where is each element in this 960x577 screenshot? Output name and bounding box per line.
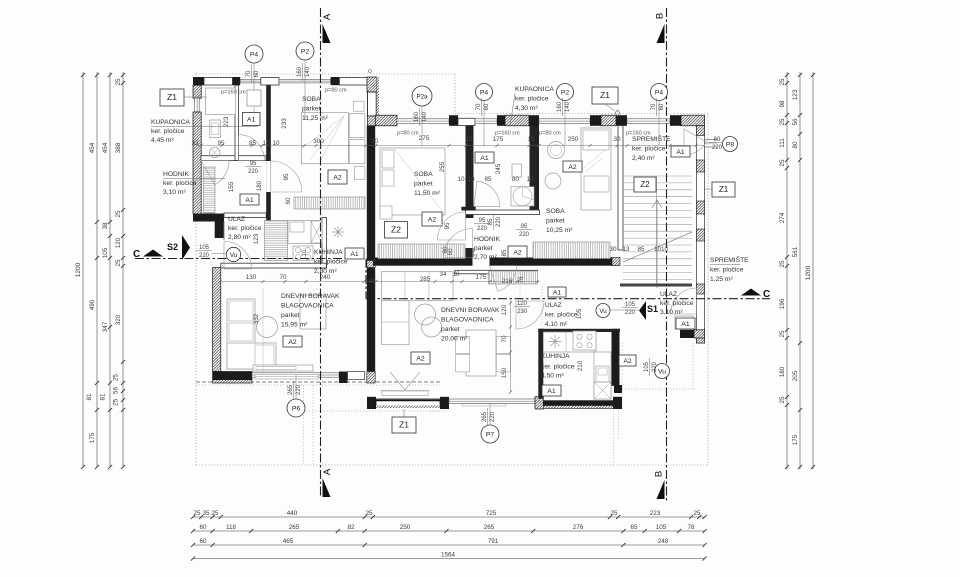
party wall hatch strip east <box>377 77 379 116</box>
svg-text:parket: parket <box>302 106 321 113</box>
svg-text:175: 175 <box>476 274 487 281</box>
svg-text:HODNIK: HODNIK <box>474 236 501 243</box>
window S1 big (P6) <box>252 373 339 377</box>
svg-text:p=160 cm: p=160 cm <box>221 90 246 96</box>
P7 circle <box>481 425 499 443</box>
svg-text:95: 95 <box>479 218 486 224</box>
P6 circle <box>287 399 305 417</box>
svg-text:240: 240 <box>320 274 331 281</box>
wall pier <box>529 115 539 126</box>
tag A2 kupaonica mid <box>563 161 582 172</box>
svg-text:105: 105 <box>199 245 210 251</box>
tag A2 living left <box>283 336 302 347</box>
svg-text:A: A <box>322 13 333 20</box>
svg-text:725: 725 <box>486 510 497 517</box>
window S right (P7) <box>449 399 535 403</box>
svg-text:160: 160 <box>557 101 563 112</box>
P4 circle mid <box>476 84 493 101</box>
svg-text:230: 230 <box>517 309 528 315</box>
svg-text:ker. pločice: ker. pločice <box>163 180 197 187</box>
door arc ulaz mid big <box>516 301 544 329</box>
terrace dashed edge left unit <box>196 381 440 383</box>
wall: east right unit base <box>696 126 704 344</box>
wall: mid horizontal east part <box>490 258 621 266</box>
Vu circle right-lower <box>655 364 670 379</box>
svg-text:220: 220 <box>712 145 723 151</box>
svg-text:A1: A1 <box>350 251 359 258</box>
wall: left unit north corner pier <box>193 77 204 85</box>
section line C right <box>366 298 770 300</box>
svg-text:ker. pločice: ker. pločice <box>515 96 549 103</box>
svg-text:85: 85 <box>488 218 494 225</box>
svg-text:223: 223 <box>223 116 230 127</box>
svg-text:parket: parket <box>441 326 460 333</box>
svg-text:25: 25 <box>779 260 786 268</box>
svg-text:265: 265 <box>482 411 488 422</box>
Vu circle left <box>226 247 240 261</box>
svg-text:220: 220 <box>296 384 302 395</box>
svg-text:S2: S2 <box>167 242 178 252</box>
svg-text:ker. pločice: ker. pločice <box>151 128 185 135</box>
svg-text:265: 265 <box>484 524 495 531</box>
svg-text:56: 56 <box>792 118 799 126</box>
svg-text:38: 38 <box>102 222 109 230</box>
svg-text:10: 10 <box>465 136 473 143</box>
kitchen-left star symbol <box>332 226 344 238</box>
svg-text:85: 85 <box>637 246 645 253</box>
svg-text:B: B <box>654 471 665 477</box>
wall hatch <box>505 115 529 126</box>
svg-text:111: 111 <box>779 138 786 148</box>
door gap hodnik <box>473 258 490 266</box>
svg-text:10: 10 <box>272 140 280 147</box>
wardrobe comb kitchen-left tall <box>265 221 288 261</box>
interior dim line lower <box>220 281 540 283</box>
party wall hatch pier 2 <box>367 261 375 268</box>
svg-text:60: 60 <box>254 70 260 77</box>
svg-text:1010: 1010 <box>654 246 669 253</box>
svg-text:140: 140 <box>422 111 428 122</box>
svg-text:P4: P4 <box>250 51 259 58</box>
svg-text:KUHINJA: KUHINJA <box>314 249 343 256</box>
svg-text:p=80 cm: p=80 cm <box>325 88 347 94</box>
svg-text:2,80 m²: 2,80 m² <box>228 234 251 241</box>
tag A2 right soba <box>508 246 527 258</box>
interior dim line upper <box>196 145 704 147</box>
svg-text:60: 60 <box>447 248 454 256</box>
wardrobe comb ulaz mid <box>489 271 538 284</box>
svg-text:440: 440 <box>287 510 298 517</box>
spremiste right small shelf <box>675 316 693 329</box>
section line B <box>666 8 668 502</box>
wall: terrace Z1 band <box>367 397 376 409</box>
section A bottom marker <box>323 478 331 497</box>
svg-text:454: 454 <box>102 142 109 153</box>
svg-text:4,50 m²: 4,50 m² <box>541 373 564 380</box>
party wall white core <box>368 92 377 116</box>
terrace shelf <box>382 391 428 396</box>
partition: stairs west <box>618 126 623 251</box>
svg-text:ker. pločice: ker. pločice <box>541 364 575 371</box>
svg-text:175: 175 <box>89 432 96 443</box>
svg-text:210: 210 <box>577 360 584 371</box>
svg-text:60: 60 <box>199 524 207 531</box>
svg-text:P4: P4 <box>480 89 489 96</box>
svg-text:70: 70 <box>476 103 482 110</box>
svg-text:ker. pločice: ker. pločice <box>660 300 694 307</box>
svg-text:P8: P8 <box>726 141 735 148</box>
kitchen-right star symbol <box>549 335 562 348</box>
window N2 leaf <box>261 78 279 85</box>
section B top marker <box>657 24 665 43</box>
wardrobe comb left soba <box>294 197 365 209</box>
wall: entry jog vertical leg <box>215 222 224 239</box>
svg-text:265: 265 <box>288 384 294 395</box>
sofa left L <box>227 299 255 369</box>
bottom dim lines <box>193 516 705 518</box>
svg-text:80: 80 <box>512 176 520 183</box>
svg-text:A1: A1 <box>681 321 690 328</box>
svg-text:SPREMIŠTE: SPREMIŠTE <box>710 255 749 264</box>
dining left <box>300 295 326 329</box>
wall: south-west block <box>213 372 252 384</box>
svg-text:A2: A2 <box>624 358 632 365</box>
washbasin left bath <box>210 120 221 138</box>
svg-text:P2: P2 <box>561 89 570 96</box>
svg-text:255: 255 <box>439 161 446 172</box>
washbasin mid bath <box>548 142 565 159</box>
svg-text:P4: P4 <box>655 89 664 96</box>
svg-text:220: 220 <box>652 361 658 372</box>
svg-text:ker. pločice: ker. pločice <box>710 267 744 274</box>
stairs south edge <box>620 284 692 287</box>
svg-text:70: 70 <box>246 70 252 77</box>
svg-text:180: 180 <box>779 366 786 377</box>
wall: party wall upper pier <box>367 77 377 92</box>
svg-text:25: 25 <box>693 510 701 517</box>
svg-text:175: 175 <box>792 434 799 445</box>
svg-text:25: 25 <box>115 210 122 218</box>
svg-text:85: 85 <box>484 176 492 183</box>
svg-text:275: 275 <box>419 135 430 142</box>
kitchen-right sink <box>596 366 609 382</box>
section line C left <box>135 258 366 260</box>
svg-text:Z1: Z1 <box>600 90 610 100</box>
svg-text:P2: P2 <box>301 48 310 55</box>
svg-text:30: 30 <box>371 138 379 145</box>
svg-text:1200: 1200 <box>75 262 82 277</box>
svg-text:245: 245 <box>495 163 502 174</box>
wall hatch pier <box>535 397 543 409</box>
svg-text:25: 25 <box>211 510 219 517</box>
door gap <box>466 218 474 248</box>
wall pier <box>497 115 505 126</box>
wardrobe comb mid soba <box>378 244 465 259</box>
svg-text:parket: parket <box>414 181 433 188</box>
wall: west lower <box>213 268 221 372</box>
svg-text:10: 10 <box>467 176 475 183</box>
svg-text:130: 130 <box>246 274 257 281</box>
svg-text:KUPAONICA: KUPAONICA <box>515 86 554 93</box>
svg-text:A2: A2 <box>513 250 522 257</box>
svg-text:DNEVNI BORAVAK: DNEVNI BORAVAK <box>281 293 340 300</box>
wall pier south <box>339 372 348 384</box>
svg-text:160: 160 <box>297 66 303 77</box>
tag A2 mid soba <box>422 212 442 226</box>
svg-text:95: 95 <box>217 140 225 147</box>
left dim lines <box>82 72 84 468</box>
svg-text:233: 233 <box>281 118 288 129</box>
svg-text:25: 25 <box>115 78 122 86</box>
P2a circle <box>412 86 432 106</box>
svg-text:Z2: Z2 <box>391 224 401 234</box>
svg-text:34: 34 <box>439 271 447 278</box>
svg-text:1,25 m²: 1,25 m² <box>710 276 733 283</box>
svg-text:180: 180 <box>256 180 263 191</box>
svg-text:80: 80 <box>792 141 799 149</box>
svg-text:4,30 m²: 4,30 m² <box>515 105 538 112</box>
frac 85/220 rot <box>488 214 502 230</box>
svg-text:P2a: P2a <box>416 93 428 100</box>
svg-text:196: 196 <box>779 298 786 309</box>
svg-text:Z1: Z1 <box>719 185 729 194</box>
svg-text:220: 220 <box>625 310 636 316</box>
svg-text:25: 25 <box>779 78 786 86</box>
kitchen-left fridge X <box>311 221 322 243</box>
kitchen-left counter <box>288 221 322 244</box>
nightstand <box>354 167 365 180</box>
svg-text:140: 140 <box>565 101 571 112</box>
svg-text:Z1: Z1 <box>167 92 177 102</box>
section line C jog <box>365 259 367 299</box>
right dim lines <box>786 72 788 469</box>
svg-text:70: 70 <box>501 335 508 343</box>
wall: south kitchen band <box>543 400 613 408</box>
svg-text:C: C <box>133 249 140 260</box>
svg-text:A1: A1 <box>553 290 562 297</box>
wall hatch <box>601 115 616 126</box>
east wall hatch pier <box>696 126 704 136</box>
window N4 leaf (p=80) <box>339 78 367 85</box>
svg-text:p=80 cm: p=80 cm <box>539 131 561 137</box>
tag A1 kuhinja right <box>542 385 561 396</box>
wall segment to party <box>348 372 365 380</box>
svg-text:S1: S1 <box>647 304 658 314</box>
partition: ulaz wardrobe wall <box>455 270 538 274</box>
partition: kitchen-living divider <box>221 263 326 268</box>
svg-text:388: 388 <box>115 142 122 153</box>
svg-text:A1: A1 <box>245 197 254 204</box>
tag Z2 mid <box>385 222 408 239</box>
svg-text:p=80 cm: p=80 cm <box>397 131 419 137</box>
svg-text:123: 123 <box>792 89 799 100</box>
hatch pier mid wall <box>612 258 620 266</box>
svg-text:10: 10 <box>452 271 460 278</box>
wall pier <box>590 115 601 126</box>
svg-text:KUPAONICA: KUPAONICA <box>151 119 190 126</box>
svg-text:10: 10 <box>526 176 534 183</box>
svg-text:56: 56 <box>113 387 120 395</box>
svg-text:10: 10 <box>262 140 270 147</box>
wall pier <box>233 77 241 85</box>
corner piece <box>614 385 622 393</box>
terrace dotted right unit <box>430 410 448 412</box>
door gap soba <box>266 161 271 192</box>
svg-text:10: 10 <box>301 249 308 257</box>
ulaz dotted column lines <box>519 286 521 329</box>
tag A1 left lower <box>240 194 259 205</box>
pier at soba door <box>266 213 271 221</box>
door arc entry left <box>224 242 252 270</box>
svg-text:248: 248 <box>658 538 669 545</box>
svg-text:60: 60 <box>484 103 490 110</box>
nightstand mid soba <box>380 206 392 219</box>
svg-text:561: 561 <box>792 246 799 257</box>
stairs right unit <box>623 176 692 280</box>
svg-text:Z1: Z1 <box>399 420 409 430</box>
tag A1 spremiste top <box>671 146 690 157</box>
wall hatch NE <box>681 115 705 126</box>
svg-text:DNEVNI BORAVAK: DNEVNI BORAVAK <box>441 307 500 314</box>
partition: kupaonica west <box>530 126 540 211</box>
svg-text:220: 220 <box>496 216 502 227</box>
svg-text:p=160 cm: p=160 cm <box>626 131 651 137</box>
svg-text:140: 140 <box>305 66 311 77</box>
coffee tables right <box>415 304 436 325</box>
svg-text:265: 265 <box>289 524 300 531</box>
P2 circle mid <box>557 84 574 101</box>
kitchen-right fridge X <box>594 382 611 399</box>
tag A2 east <box>619 355 636 366</box>
svg-text:276: 276 <box>573 524 584 531</box>
door arc soba-left <box>271 161 302 192</box>
wall: mid north hatch <box>375 115 397 126</box>
tag Z1 left margin <box>160 89 184 106</box>
svg-text:P6: P6 <box>292 405 301 412</box>
svg-text:76: 76 <box>518 276 525 284</box>
kitchen-right counter top <box>543 332 594 352</box>
svg-text:ULAZ: ULAZ <box>545 302 562 309</box>
svg-text:454: 454 <box>89 142 96 153</box>
svg-text:30: 30 <box>613 136 621 143</box>
partition: kitchen east <box>322 218 327 269</box>
bed left soba <box>301 113 348 164</box>
svg-text:60: 60 <box>285 197 292 205</box>
wall: party wall main <box>367 126 375 380</box>
svg-text:33: 33 <box>191 140 199 147</box>
svg-text:95: 95 <box>521 224 528 230</box>
svg-text:490: 490 <box>89 299 96 310</box>
tag Z2 stairs <box>634 177 656 192</box>
kitchen-right column <box>594 352 611 399</box>
Vu circle right-kitchen <box>596 304 610 318</box>
svg-text:347: 347 <box>102 321 109 332</box>
tag Z1 top <box>592 87 618 104</box>
sofa right L <box>382 272 454 301</box>
P8 circle <box>723 137 738 152</box>
window MN2 glass <box>475 119 497 124</box>
svg-text:81: 81 <box>100 393 107 401</box>
partition: kupaonica east <box>235 85 239 160</box>
svg-text:10: 10 <box>457 176 465 183</box>
svg-text:KUHINJA: KUHINJA <box>541 353 570 360</box>
svg-text:25: 25 <box>365 510 373 517</box>
bed right soba <box>581 128 611 210</box>
P2 circle top-left <box>296 42 314 60</box>
section B bottom marker <box>657 480 665 499</box>
wall pier <box>449 115 458 126</box>
window MN3 (p=80) <box>539 119 590 124</box>
nightstand <box>354 101 365 111</box>
wall pier <box>440 397 449 409</box>
svg-text:120: 120 <box>517 301 528 307</box>
svg-text:95: 95 <box>444 222 451 230</box>
tag A1 ulaz right <box>676 318 695 329</box>
svg-text:120: 120 <box>501 304 508 315</box>
svg-text:60: 60 <box>199 538 207 545</box>
stairs flight divider <box>656 176 658 284</box>
svg-text:95: 95 <box>283 173 290 181</box>
svg-text:3,10 m²: 3,10 m² <box>660 309 683 316</box>
svg-text:81: 81 <box>86 393 93 401</box>
door arc right soba <box>490 266 517 292</box>
svg-text:30: 30 <box>368 278 376 285</box>
party wall hatch pier 3 <box>367 372 375 384</box>
svg-text:1200: 1200 <box>805 265 812 280</box>
svg-text:20,00 m²: 20,00 m² <box>441 336 468 343</box>
window sill right <box>462 404 506 406</box>
svg-text:ker. pločice: ker. pločice <box>314 259 348 266</box>
svg-text:25: 25 <box>779 330 786 338</box>
stairs walk line <box>652 200 662 288</box>
svg-text:105: 105 <box>102 247 109 258</box>
bed mid soba <box>380 148 445 215</box>
svg-text:95: 95 <box>250 161 257 167</box>
stairs cut diagonal <box>623 232 692 262</box>
svg-text:118: 118 <box>226 524 237 531</box>
svg-text:11,50 m²: 11,50 m² <box>414 190 441 197</box>
svg-text:ULAZ: ULAZ <box>660 291 677 298</box>
svg-text:25: 25 <box>113 398 120 406</box>
wall: west mid <box>193 112 201 214</box>
svg-text:35: 35 <box>202 510 210 517</box>
east door opening <box>697 296 704 314</box>
svg-text:C: C <box>763 289 770 300</box>
wall corner SE <box>613 397 622 409</box>
svg-text:3,10 m²: 3,10 m² <box>163 189 186 196</box>
door arc spremiste top <box>684 129 707 155</box>
svg-text:123: 123 <box>253 233 260 244</box>
partition: soba west <box>266 85 271 213</box>
svg-text:300: 300 <box>313 138 324 145</box>
door arc left-unit bath <box>201 161 229 185</box>
svg-text:11,25 m²: 11,25 m² <box>302 115 329 122</box>
svg-text:223: 223 <box>650 510 661 517</box>
svg-text:216: 216 <box>502 278 513 285</box>
C marker left <box>143 250 163 257</box>
svg-text:2,40 m²: 2,40 m² <box>632 155 655 162</box>
svg-text:ker. pločice: ker. pločice <box>632 146 666 153</box>
svg-text:25: 25 <box>779 118 786 126</box>
tv bench left <box>253 365 313 371</box>
svg-text:60: 60 <box>659 103 665 110</box>
svg-text:25: 25 <box>113 374 120 382</box>
svg-text:80: 80 <box>714 137 721 143</box>
svg-text:105: 105 <box>625 302 636 308</box>
svg-text:82: 82 <box>347 524 355 531</box>
svg-text:A1: A1 <box>676 149 685 156</box>
terrace mark lines <box>390 372 420 390</box>
